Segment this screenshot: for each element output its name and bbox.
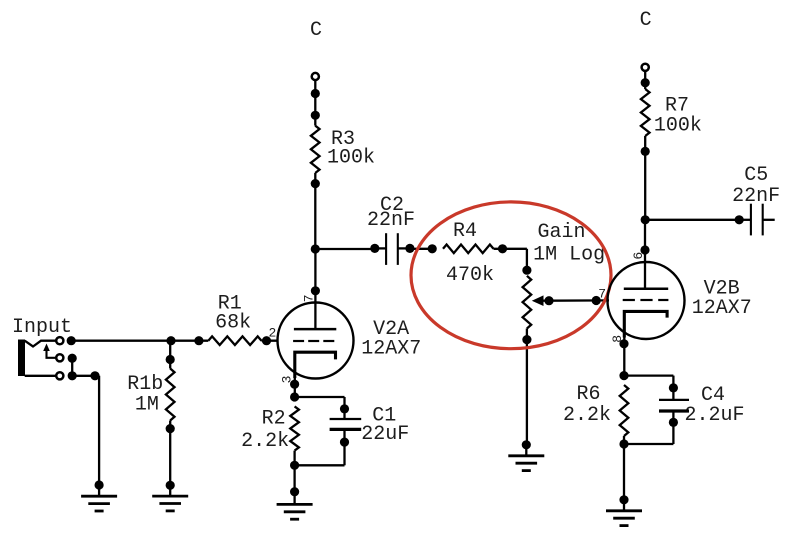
- label C5: [732, 164, 780, 208]
- jack ring contact: [56, 354, 77, 363]
- svg-text:100k: 100k: [327, 147, 375, 170]
- wire V2B cathode pin: [619, 338, 628, 381]
- svg-text:R4: R4: [453, 220, 477, 243]
- V2B plate: [624, 262, 668, 289]
- wire C2 to R4: [410, 244, 437, 253]
- label C1: [361, 405, 409, 446]
- terminal C left: [312, 73, 319, 80]
- svg-text:2.2uF: 2.2uF: [685, 404, 745, 427]
- svg-text:C5: C5: [744, 164, 768, 187]
- wire R2 to ground: [290, 451, 299, 497]
- wire V2B plate pin: [640, 220, 649, 262]
- capacitor C1: [330, 409, 362, 447]
- wire cathode to C1 top: [295, 397, 350, 414]
- label R1b: [127, 373, 163, 416]
- svg-text:7: 7: [301, 294, 316, 302]
- V2A plate: [294, 303, 336, 330]
- svg-text:7: 7: [598, 287, 606, 302]
- svg-text:6: 6: [631, 252, 646, 260]
- svg-text:22uF: 22uF: [361, 423, 409, 446]
- pin 7 label V2B grid: [598, 287, 606, 302]
- wire R4 to pot top: [494, 244, 532, 275]
- node plate junction V2A: [311, 244, 320, 253]
- svg-text:22nF: 22nF: [732, 185, 780, 208]
- svg-text:Input: Input: [12, 316, 72, 339]
- jack switch arrow: [43, 344, 55, 358]
- annotation red ellipse around R4 and Gain pot: [411, 202, 611, 349]
- svg-text:R6: R6: [577, 383, 601, 406]
- wire V2A cathode pin: [290, 378, 299, 402]
- svg-text:Gain: Gain: [538, 221, 586, 244]
- label R4 value: [446, 264, 494, 287]
- label C4: [685, 384, 745, 427]
- svg-text:C: C: [640, 9, 652, 32]
- node C (right supply label): [640, 9, 652, 32]
- V2B cathode: [624, 311, 667, 337]
- ground R6: [606, 500, 642, 526]
- wire wiper to V2B grid: [549, 296, 609, 305]
- wire C1 bottom to R2: [295, 442, 345, 465]
- jack tip contact: [56, 336, 76, 345]
- wire supply to R3: [311, 80, 320, 120]
- wire R7 to plate junction: [641, 136, 650, 220]
- pin 3 label V2A cathode: [280, 376, 295, 384]
- resistor R1: [208, 336, 261, 345]
- ground R1b: [152, 485, 188, 511]
- wire R1 to V2A grid: [262, 336, 278, 345]
- ground R2: [277, 492, 313, 520]
- svg-text:2.2k: 2.2k: [241, 430, 289, 453]
- label R3 value: [327, 128, 375, 170]
- wire cathode to C4 top: [624, 376, 678, 393]
- label C2: [367, 194, 415, 232]
- label Input: [12, 316, 72, 339]
- label V2A: [361, 318, 421, 360]
- pin 6 label V2B plate: [631, 252, 646, 260]
- node C (left supply label): [310, 19, 322, 42]
- jack sleeve contact: [56, 371, 77, 380]
- pin 7 label V2A plate: [301, 294, 316, 302]
- svg-text:1M Log: 1M Log: [533, 243, 605, 266]
- terminal C right: [642, 64, 649, 71]
- tube V2B envelope: [608, 262, 685, 339]
- wire R1b to ground: [166, 421, 175, 490]
- wire junction to C5: [645, 215, 744, 224]
- wire sleeve to ground: [72, 371, 104, 489]
- wire R1b top: [166, 341, 175, 369]
- wire R3 to plate junction: [311, 115, 320, 249]
- label R4: [453, 220, 477, 243]
- wire ring to sleeve: [71, 358, 73, 376]
- wire junction to C2: [315, 248, 375, 250]
- svg-text:22nF: 22nF: [367, 209, 415, 232]
- resistor R2: [290, 406, 299, 450]
- capacitor C5: [739, 204, 775, 236]
- pin 2 label V2A grid: [269, 325, 277, 340]
- label V2B: [692, 278, 752, 321]
- svg-text:12AX7: 12AX7: [361, 337, 421, 360]
- V2A grid: [293, 340, 334, 342]
- ground pot: [508, 445, 544, 471]
- V2B grid: [623, 299, 669, 301]
- pot wiper arrow: [532, 295, 554, 306]
- pin 8 label V2B cathode: [610, 335, 625, 343]
- resistor R3: [311, 126, 320, 173]
- label R6: [563, 383, 611, 427]
- capacitor C4: [659, 388, 689, 427]
- svg-text:12AX7: 12AX7: [692, 297, 752, 320]
- wire C4 bottom to R6: [624, 422, 673, 444]
- label R7 value: [654, 95, 702, 138]
- resistor R6: [620, 385, 629, 436]
- resistor R7: [641, 89, 650, 136]
- resistor R1b: [166, 369, 175, 421]
- potentiometer Gain 1M Log: [523, 276, 532, 329]
- resistor R4: [443, 245, 494, 254]
- wire pot bottom to ground: [522, 329, 532, 450]
- svg-text:100k: 100k: [654, 114, 702, 137]
- wire R6 to ground: [619, 436, 628, 504]
- label Gain pot: [533, 221, 605, 267]
- svg-text:C: C: [310, 19, 322, 42]
- tube V2A envelope: [278, 303, 354, 379]
- svg-text:R2: R2: [262, 408, 286, 431]
- input jack body: [18, 340, 56, 377]
- svg-text:1M: 1M: [135, 393, 159, 416]
- ground input: [81, 485, 117, 511]
- svg-text:2.2k: 2.2k: [563, 404, 611, 427]
- node plate junction V2B: [641, 215, 650, 224]
- V2A cathode: [295, 352, 336, 378]
- capacitor C2: [370, 233, 414, 265]
- label R1: [215, 292, 251, 334]
- svg-text:68k: 68k: [215, 312, 251, 335]
- wire supply to R7: [641, 71, 650, 89]
- wire V2A plate pin: [311, 249, 320, 303]
- svg-text:2: 2: [269, 325, 277, 340]
- label R2: [241, 408, 289, 453]
- svg-text:470k: 470k: [446, 264, 494, 287]
- wire input to R1: [71, 336, 208, 345]
